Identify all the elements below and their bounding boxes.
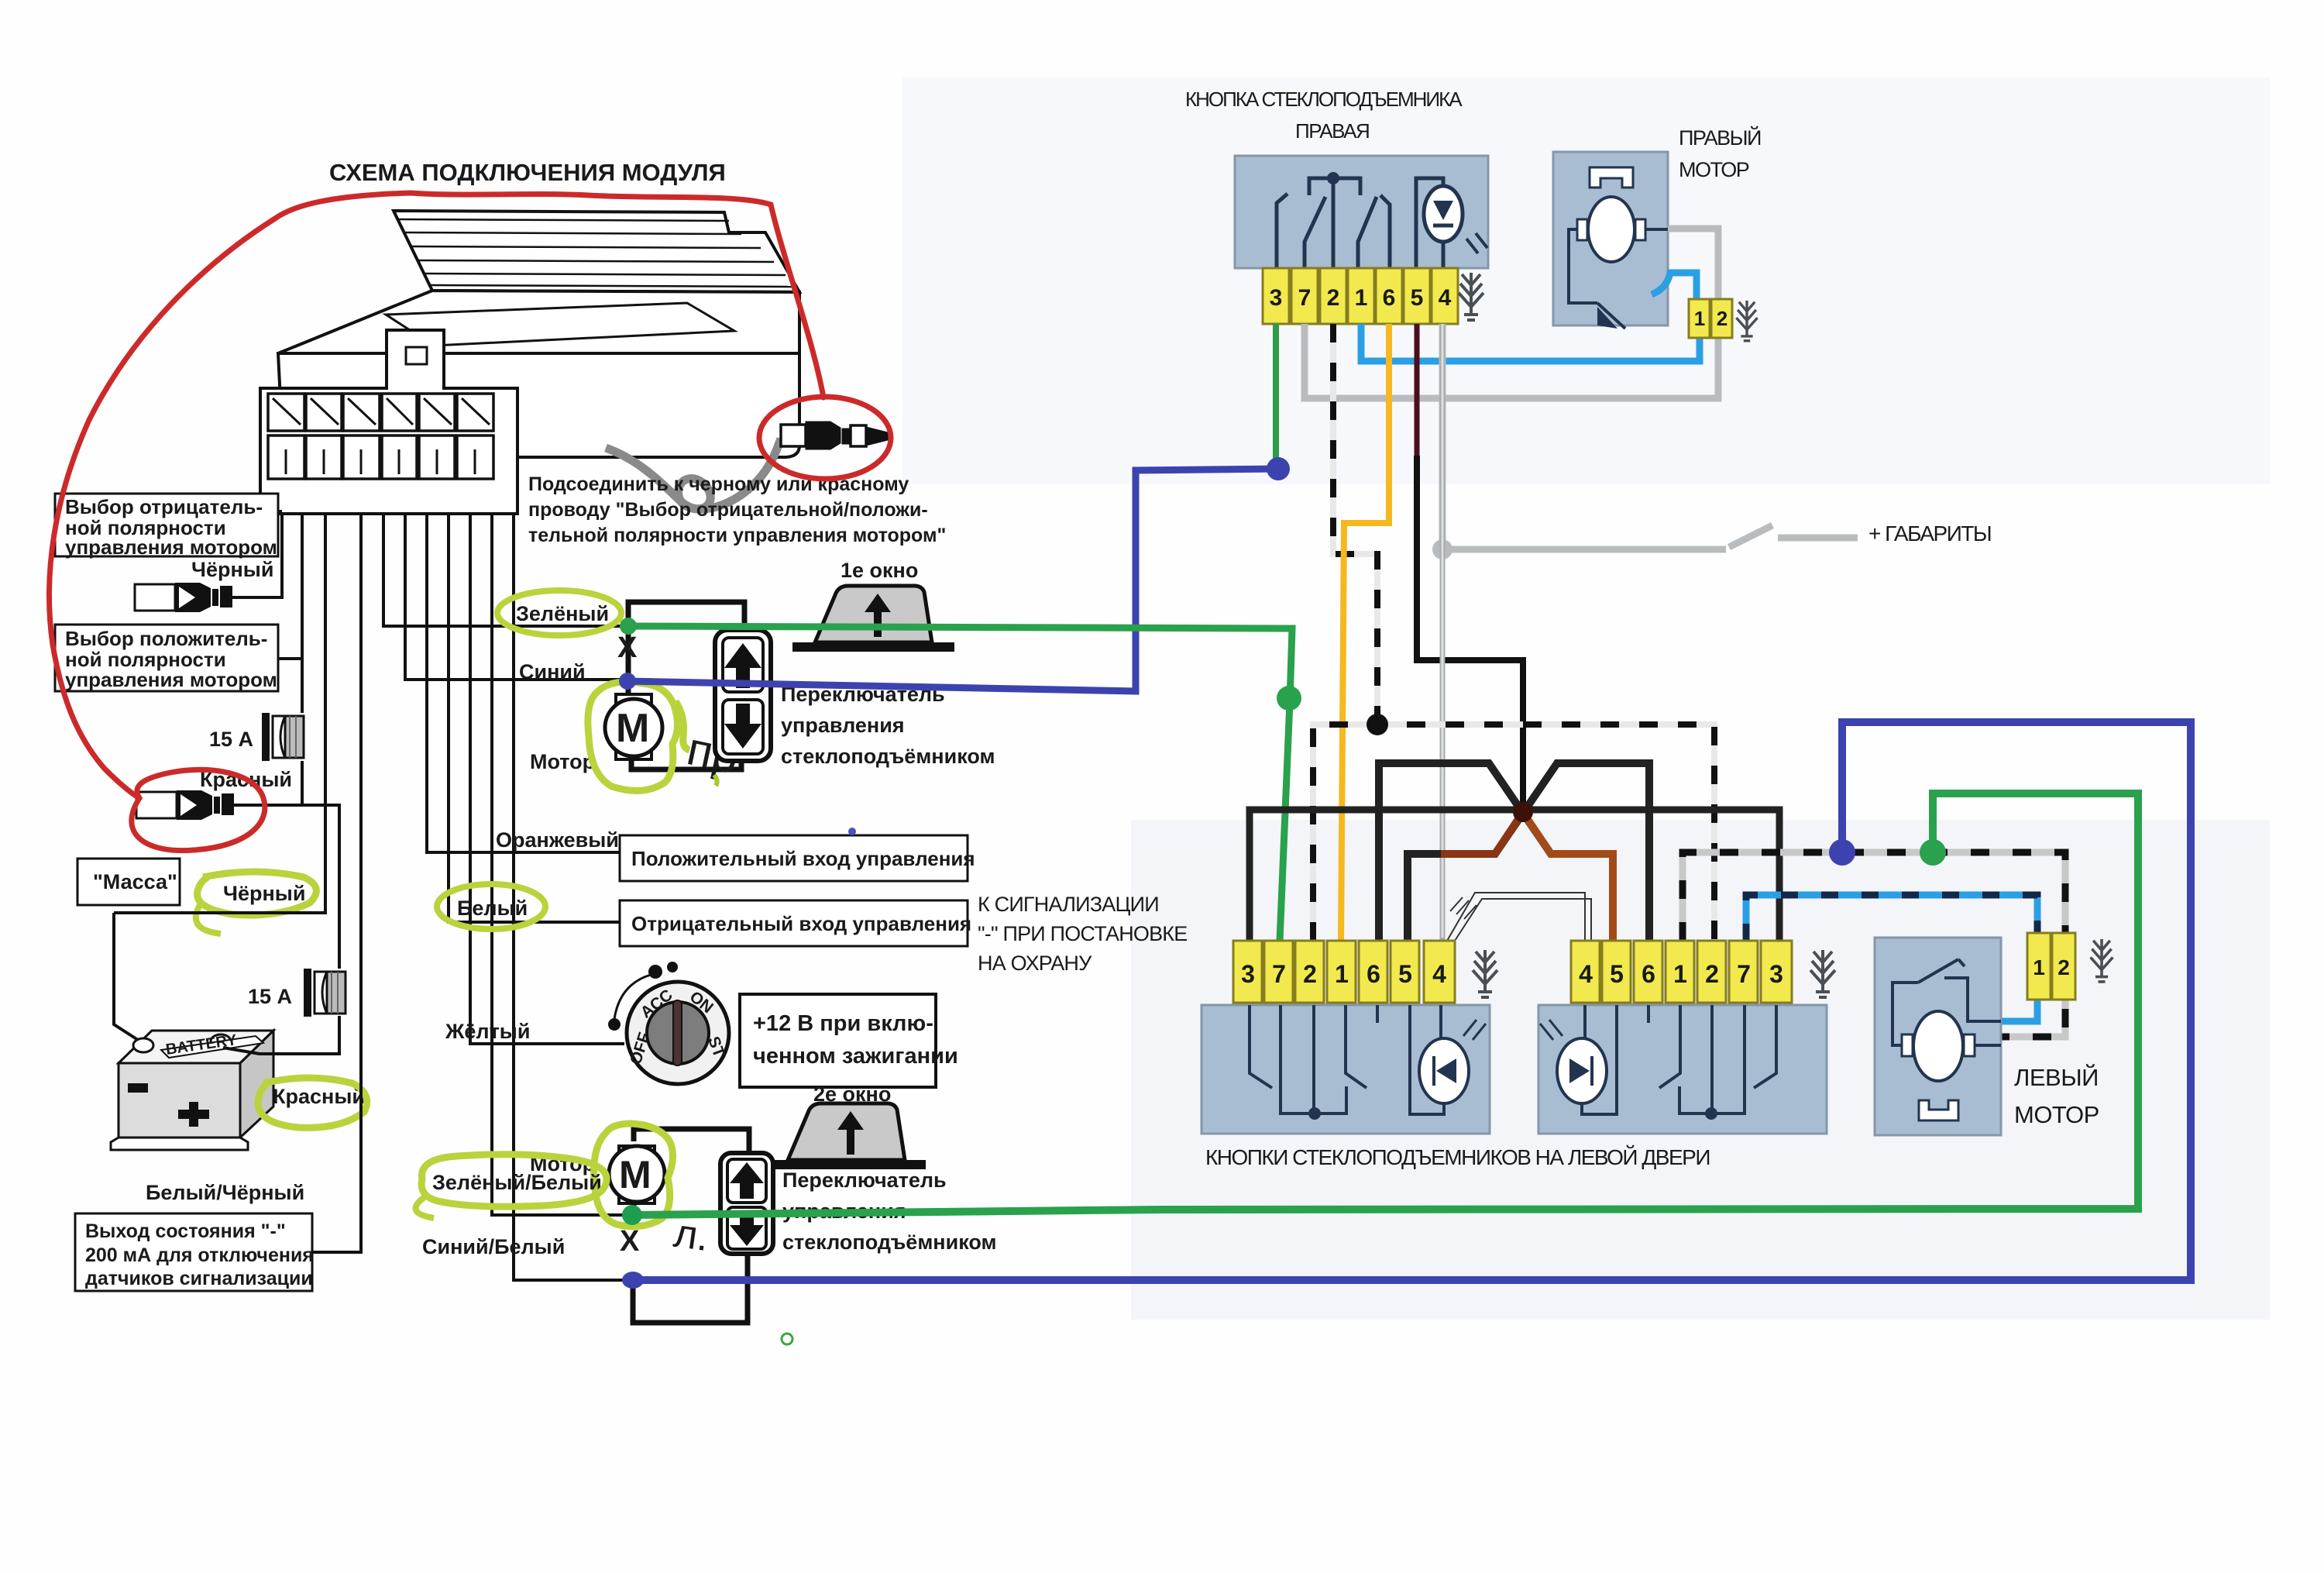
svg-text:стеклоподъёмником: стеклоподъёмником [781, 745, 995, 768]
svg-text:6: 6 [1642, 960, 1655, 988]
box Масса [77, 859, 180, 905]
svg-text:Чёрный: Чёрный [191, 558, 273, 581]
svg-text:1: 1 [1335, 960, 1349, 988]
wire Жёлтый row [470, 514, 624, 1044]
gray wire right motor loop [1305, 229, 1718, 398]
green highlight ellipse Зелёный [497, 590, 621, 635]
window switch icon 2 [720, 1153, 773, 1254]
connector pin squares bottom row [268, 435, 493, 479]
svg-text:Зелёный/Белый: Зелёный/Белый [432, 1171, 602, 1194]
svg-text:Жёлтый: Жёлтый [445, 1020, 530, 1043]
thin white wire pin4sw1 to pin4sw2 [1447, 893, 1591, 941]
left text box 2: Выбор положительной полярности [55, 625, 278, 691]
svg-text:управления мотором: управления мотором [65, 668, 277, 691]
text Переключатель управления стеклоподъёмником (1) [781, 683, 995, 768]
box +12 В [740, 994, 958, 1087]
green highlight ellipse Чёрный масса [198, 872, 317, 915]
svg-text:3: 3 [1270, 285, 1283, 311]
svg-text:Синий: Синий [519, 660, 586, 683]
internal contacts [1277, 178, 1443, 268]
pin numbers left door switch 1: 3 7 2 1 6 5 4 [1241, 960, 1446, 988]
svg-text:M: M [619, 1153, 651, 1196]
box Положительный вход управления [620, 835, 975, 881]
ground symbol right motor conn [1736, 301, 1757, 341]
pin numbers left motor connector 1 2 [2033, 955, 2070, 979]
black quick connector icon 2 (red circled) [136, 790, 234, 820]
svg-text:стеклоподъёмником: стеклоподъёмником [782, 1231, 996, 1254]
svg-text:5: 5 [1411, 285, 1424, 311]
svg-text:6: 6 [1367, 960, 1380, 988]
svg-text:3: 3 [1769, 960, 1783, 988]
module connector block [260, 330, 517, 514]
svg-text:датчиков сигнализации: датчиков сигнализации [85, 1268, 313, 1289]
svg-text:5: 5 [1398, 960, 1412, 988]
blue wire right motor to connector [1652, 273, 1697, 299]
yellow pin row right switch 3 7 2 1 6 5 4 [1263, 268, 1458, 324]
module cable curl [606, 439, 781, 509]
svg-text:МОТОР: МОТОР [2014, 1101, 2099, 1128]
svg-text:2: 2 [1303, 960, 1317, 988]
svg-text:Оранжевый: Оранжевый [496, 828, 619, 852]
yellow pin row sw2: 4 5 6 1 2 7 3 [1571, 941, 1792, 1003]
window icon 1 [792, 586, 954, 652]
green scribble motor2 [594, 1124, 673, 1227]
gray wire + ГАБАРИТЫ [1442, 324, 1858, 549]
wire Зелёный/Белый row [492, 514, 624, 1215]
svg-text:5: 5 [1610, 960, 1624, 988]
dashed bw wire from right pin2 [1333, 324, 1377, 725]
svg-text:ПРАВЫЙ: ПРАВЫЙ [1679, 126, 1761, 150]
svg-text:Белый/Чёрный: Белый/Чёрный [146, 1181, 304, 1204]
motor1 circuit: top rail [628, 602, 744, 769]
fins band [394, 211, 799, 292]
svg-text:2: 2 [1705, 960, 1719, 988]
svg-text:управления: управления [781, 714, 905, 737]
long dashed horizontal y935 [1313, 725, 1714, 941]
wire Белый row [449, 514, 620, 922]
gray wire right pin4 down [1440, 324, 1446, 941]
blue dashed wire pin7 sw2 to left motor connector [1746, 895, 2037, 941]
svg-text:7: 7 [1298, 285, 1312, 311]
svg-text:1: 1 [1355, 285, 1368, 311]
svg-text:Зелёный: Зелёный [516, 602, 609, 625]
масса wire [114, 913, 138, 1040]
right motor panel [1553, 152, 1668, 329]
wire to box Выбор отрицательной [278, 510, 282, 513]
text К СИГНАЛИЗАЦИИ [978, 893, 1187, 975]
svg-text:Выход состояния "-": Выход состояния "-" [85, 1220, 286, 1242]
svg-text:4: 4 [1579, 960, 1593, 988]
svg-text:К СИГНАЛИЗАЦИИ: К СИГНАЛИЗАЦИИ [978, 893, 1159, 916]
wire module pin to fuse 15A #1 [301, 514, 304, 713]
svg-text:Белый: Белый [457, 897, 528, 920]
left motor connector 1 2 [2027, 933, 2075, 1000]
note Подсоединить к черному... [528, 473, 946, 546]
wire to box Выбор положительной [278, 657, 302, 660]
svg-text:Переключатель: Переключатель [782, 1169, 947, 1192]
svg-text:4: 4 [1432, 960, 1446, 988]
right motor connector 1 2 [1689, 299, 1732, 338]
svg-text:"Масса": "Масса" [93, 870, 177, 893]
svg-text:4: 4 [1439, 285, 1452, 311]
svg-text:+ ГАБАРИТЫ: + ГАБАРИТЫ [1868, 521, 1991, 546]
svg-text:1: 1 [1673, 960, 1687, 988]
wire Зелёный row [383, 514, 624, 626]
module fins lines [397, 219, 795, 287]
svg-text:ЛЕВЫЙ: ЛЕВЫЙ [2014, 1063, 2099, 1091]
svg-text:1е окно: 1е окно [841, 559, 918, 582]
green wire long bottom [632, 793, 2138, 1215]
window switch icon 1 [715, 630, 771, 761]
svg-text:Отрицательный вход управления: Отрицательный вход управления [631, 912, 971, 935]
background tint right diagram [902, 77, 2270, 484]
ground symbol right switch [1459, 273, 1483, 320]
green scribble around motor1 and пр [588, 682, 678, 790]
svg-text:НА ОХРАНУ: НА ОХРАНУ [978, 952, 1092, 975]
wire from box to module [312, 514, 361, 1252]
svg-text:2: 2 [1717, 307, 1728, 330]
ignition switch [608, 962, 729, 1084]
yellow wire right pin6 to left pin1 [1341, 324, 1389, 941]
module box 3D body [278, 211, 799, 457]
left motor panel [1875, 938, 2001, 1135]
wire Синий row [405, 514, 624, 680]
green wire pin3 down to blue dot [1273, 324, 1279, 466]
motor 2 M circle [609, 1146, 665, 1203]
wire from connector icon1 to vertical [232, 597, 282, 599]
ground symbol sw2 [1810, 950, 1835, 997]
battery wires [223, 1016, 339, 1054]
svg-text:+12 В при вклю-: +12 В при вклю- [753, 1011, 933, 1036]
svg-text:1: 1 [2033, 955, 2045, 979]
svg-text:3: 3 [1241, 960, 1255, 988]
motor2 circuit rails [633, 1129, 749, 1323]
left text box 1: Выбор отрицательной полярности [55, 494, 278, 559]
wire Оранжевый row [427, 514, 620, 852]
window icon 2 [769, 1103, 926, 1169]
wire red net down to fuse 15A #2 [302, 805, 339, 969]
svg-text:200 мА для отключения: 200 мА для отключения [85, 1244, 314, 1266]
svg-text:6: 6 [1383, 285, 1396, 311]
svg-text:Выбор положитель-: Выбор положитель- [65, 627, 267, 650]
svg-text:управления мотором: управления мотором [65, 535, 277, 559]
svg-text:2: 2 [2058, 955, 2070, 979]
black quick connector icon 1 [135, 583, 232, 612]
svg-text:Выбор отрицатель-: Выбор отрицатель- [65, 495, 263, 518]
green highlight ellipse Красный battery [258, 1078, 367, 1127]
svg-text:проводу "Выбор отрицательной/п: проводу "Выбор отрицательной/положи- [528, 499, 928, 521]
svg-text:X: X [620, 1225, 640, 1258]
motor 1 M circle [605, 694, 662, 759]
wire module pin to black connector (negative polarity select) [232, 514, 282, 597]
tiny blue dot mid [848, 828, 856, 835]
svg-text:СХЕМА ПОДКЛЮЧЕНИЯ МОДУЛЯ: СХЕМА ПОДКЛЮЧЕНИЯ МОДУЛЯ [329, 159, 726, 186]
svg-text:ПРАВАЯ: ПРАВАЯ [1295, 119, 1369, 143]
pin numbers left door switch 2: 4 5 6 1 2 7 3 [1579, 960, 1783, 988]
lamp [1424, 186, 1463, 242]
ground symbol left motor conn [2091, 939, 2113, 982]
tiny green circle [782, 1334, 792, 1344]
cable plug connector (circled red) [781, 422, 888, 449]
svg-text:M: M [616, 706, 649, 751]
yellow pin row sw1: 3 7 2 1 6 5 4 [1233, 941, 1455, 1003]
left door switch panel 1 [1202, 1005, 1490, 1134]
right switch panel [1235, 156, 1488, 268]
svg-text:КНОПКА СТЕКЛОПОДЪЕМНИКА: КНОПКА СТЕКЛОПОДЪЕМНИКА [1185, 88, 1463, 111]
X crossing wires [1379, 763, 1649, 941]
svg-text:Положительный вход управления: Положительный вход управления [631, 847, 975, 870]
connector pin squares top row [268, 394, 493, 431]
indigo wire top: module Синий to pin3 node [627, 469, 1278, 691]
svg-text:X: X [617, 632, 638, 664]
svg-text:1: 1 [1694, 307, 1705, 330]
svg-text:7: 7 [1272, 960, 1286, 988]
front face [278, 353, 799, 457]
gray dashed wire pin1 sw2 to left motor [1683, 852, 2065, 1037]
svg-text:Чёрный: Чёрный [223, 882, 305, 905]
black horizontal y1045 pin3sw1 to pin3sw2 [1250, 810, 1779, 941]
pin numbers right switch 3 7 2 1 6 5 4 [1270, 285, 1452, 311]
svg-text:МОТОР: МОТОР [1679, 158, 1749, 181]
svg-text:7: 7 [1737, 960, 1751, 988]
svg-text:ченном зажигании: ченном зажигании [753, 1044, 958, 1069]
top face [278, 291, 799, 353]
svg-text:Красный: Красный [273, 1085, 365, 1108]
pin numbers right motor connector 1 2 [1694, 307, 1728, 330]
box Отрицательный вход управления [620, 900, 971, 946]
svg-text:КНОПКИ СТЕКЛОПОДЪЕМНИКОВ НА ЛЕ: КНОПКИ СТЕКЛОПОДЪЕМНИКОВ НА ЛЕВОЙ ДВЕРИ [1205, 1145, 1710, 1169]
svg-text:15 А: 15 А [248, 985, 292, 1008]
svg-text:тельной полярности управления: тельной полярности управления мотором" [528, 525, 946, 546]
wire Синий/Белый row [514, 514, 625, 1280]
bottom left box: Выход состояния [75, 1213, 314, 1291]
svg-text:"-" ПРИ ПОСТАНОВКЕ: "-" ПРИ ПОСТАНОВКЕ [978, 922, 1187, 945]
dark red black wire right pin5 [1415, 324, 1420, 457]
left door switch panel 2 [1538, 1005, 1827, 1134]
ground symbol sw1 [1473, 950, 1497, 997]
wire fuse1 to red connector (positive polarity select) [234, 761, 302, 805]
svg-text:15 А: 15 А [209, 728, 253, 751]
text Переключатель управления стеклоподъёмником (2) [782, 1169, 996, 1254]
svg-text:2: 2 [1327, 285, 1340, 311]
svg-text:Синий/Белый: Синий/Белый [422, 1235, 565, 1258]
svg-text:Мотор: Мотор [530, 750, 595, 773]
module lid inner outline [386, 303, 734, 346]
indigo wire long bottom [633, 722, 2191, 1280]
battery [111, 1031, 273, 1150]
red hand-drawn annotation [49, 193, 891, 851]
green wire module row to left door pin 7 [628, 626, 1292, 941]
